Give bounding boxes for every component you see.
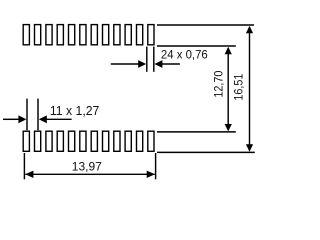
svg-text:13,97: 13,97 <box>72 160 102 174</box>
svg-text:11 x 1,27: 11 x 1,27 <box>50 104 100 118</box>
svg-text:16,51: 16,51 <box>233 74 246 101</box>
svg-text:24 x 0,76: 24 x 0,76 <box>161 48 208 61</box>
svg-text:12,70: 12,70 <box>213 71 226 98</box>
